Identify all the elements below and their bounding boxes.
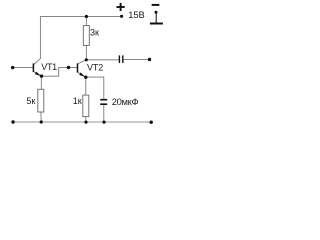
- svg-text:3к: 3к: [90, 27, 99, 37]
- svg-text:20мкФ: 20мкФ: [112, 96, 139, 107]
- svg-text:5к: 5к: [26, 96, 35, 106]
- svg-text:1к: 1к: [73, 96, 82, 106]
- svg-text:VT1: VT1: [41, 62, 57, 72]
- svg-text:15В: 15В: [128, 10, 145, 20]
- svg-text:VT2: VT2: [87, 62, 103, 72]
